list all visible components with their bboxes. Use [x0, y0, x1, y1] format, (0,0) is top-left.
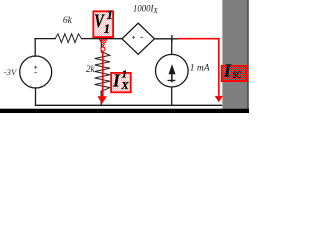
- svg-text:SC: SC: [233, 71, 242, 81]
- svg-text:1000I: 1000I: [133, 5, 154, 15]
- svg-text:1: 1: [107, 8, 113, 22]
- svg-text:1: 1: [104, 22, 110, 36]
- svg-text:X: X: [120, 80, 129, 92]
- svg-text:-3V: -3V: [4, 68, 17, 77]
- svg-text:X: X: [152, 7, 158, 15]
- svg-text:2k: 2k: [86, 64, 96, 74]
- svg-text:I: I: [112, 70, 121, 90]
- svg-text:I: I: [223, 61, 232, 81]
- svg-text:1: 1: [122, 69, 128, 81]
- svg-text:6k: 6k: [63, 16, 73, 26]
- svg-text:1 mA: 1 mA: [190, 64, 210, 74]
